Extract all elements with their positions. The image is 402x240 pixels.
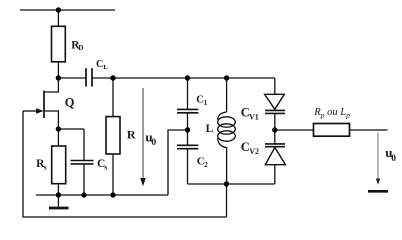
- svg-text:D: D: [78, 44, 83, 52]
- svg-text:L: L: [103, 64, 108, 71]
- svg-text:R: R: [127, 127, 136, 141]
- svg-text:0: 0: [391, 154, 396, 164]
- svg-text:Rp ou Lp: Rp ou Lp: [313, 107, 350, 120]
- svg-text:s: s: [104, 163, 107, 172]
- svg-text:2: 2: [204, 161, 208, 169]
- svg-text:0: 0: [151, 138, 156, 148]
- svg-text:s: s: [44, 163, 47, 172]
- svg-text:V1: V1: [249, 112, 259, 121]
- svg-text:L: L: [206, 123, 214, 135]
- svg-text:C: C: [196, 95, 204, 106]
- svg-text:V2: V2: [249, 147, 259, 156]
- svg-text:Q: Q: [65, 95, 75, 109]
- svg-text:1: 1: [204, 99, 208, 107]
